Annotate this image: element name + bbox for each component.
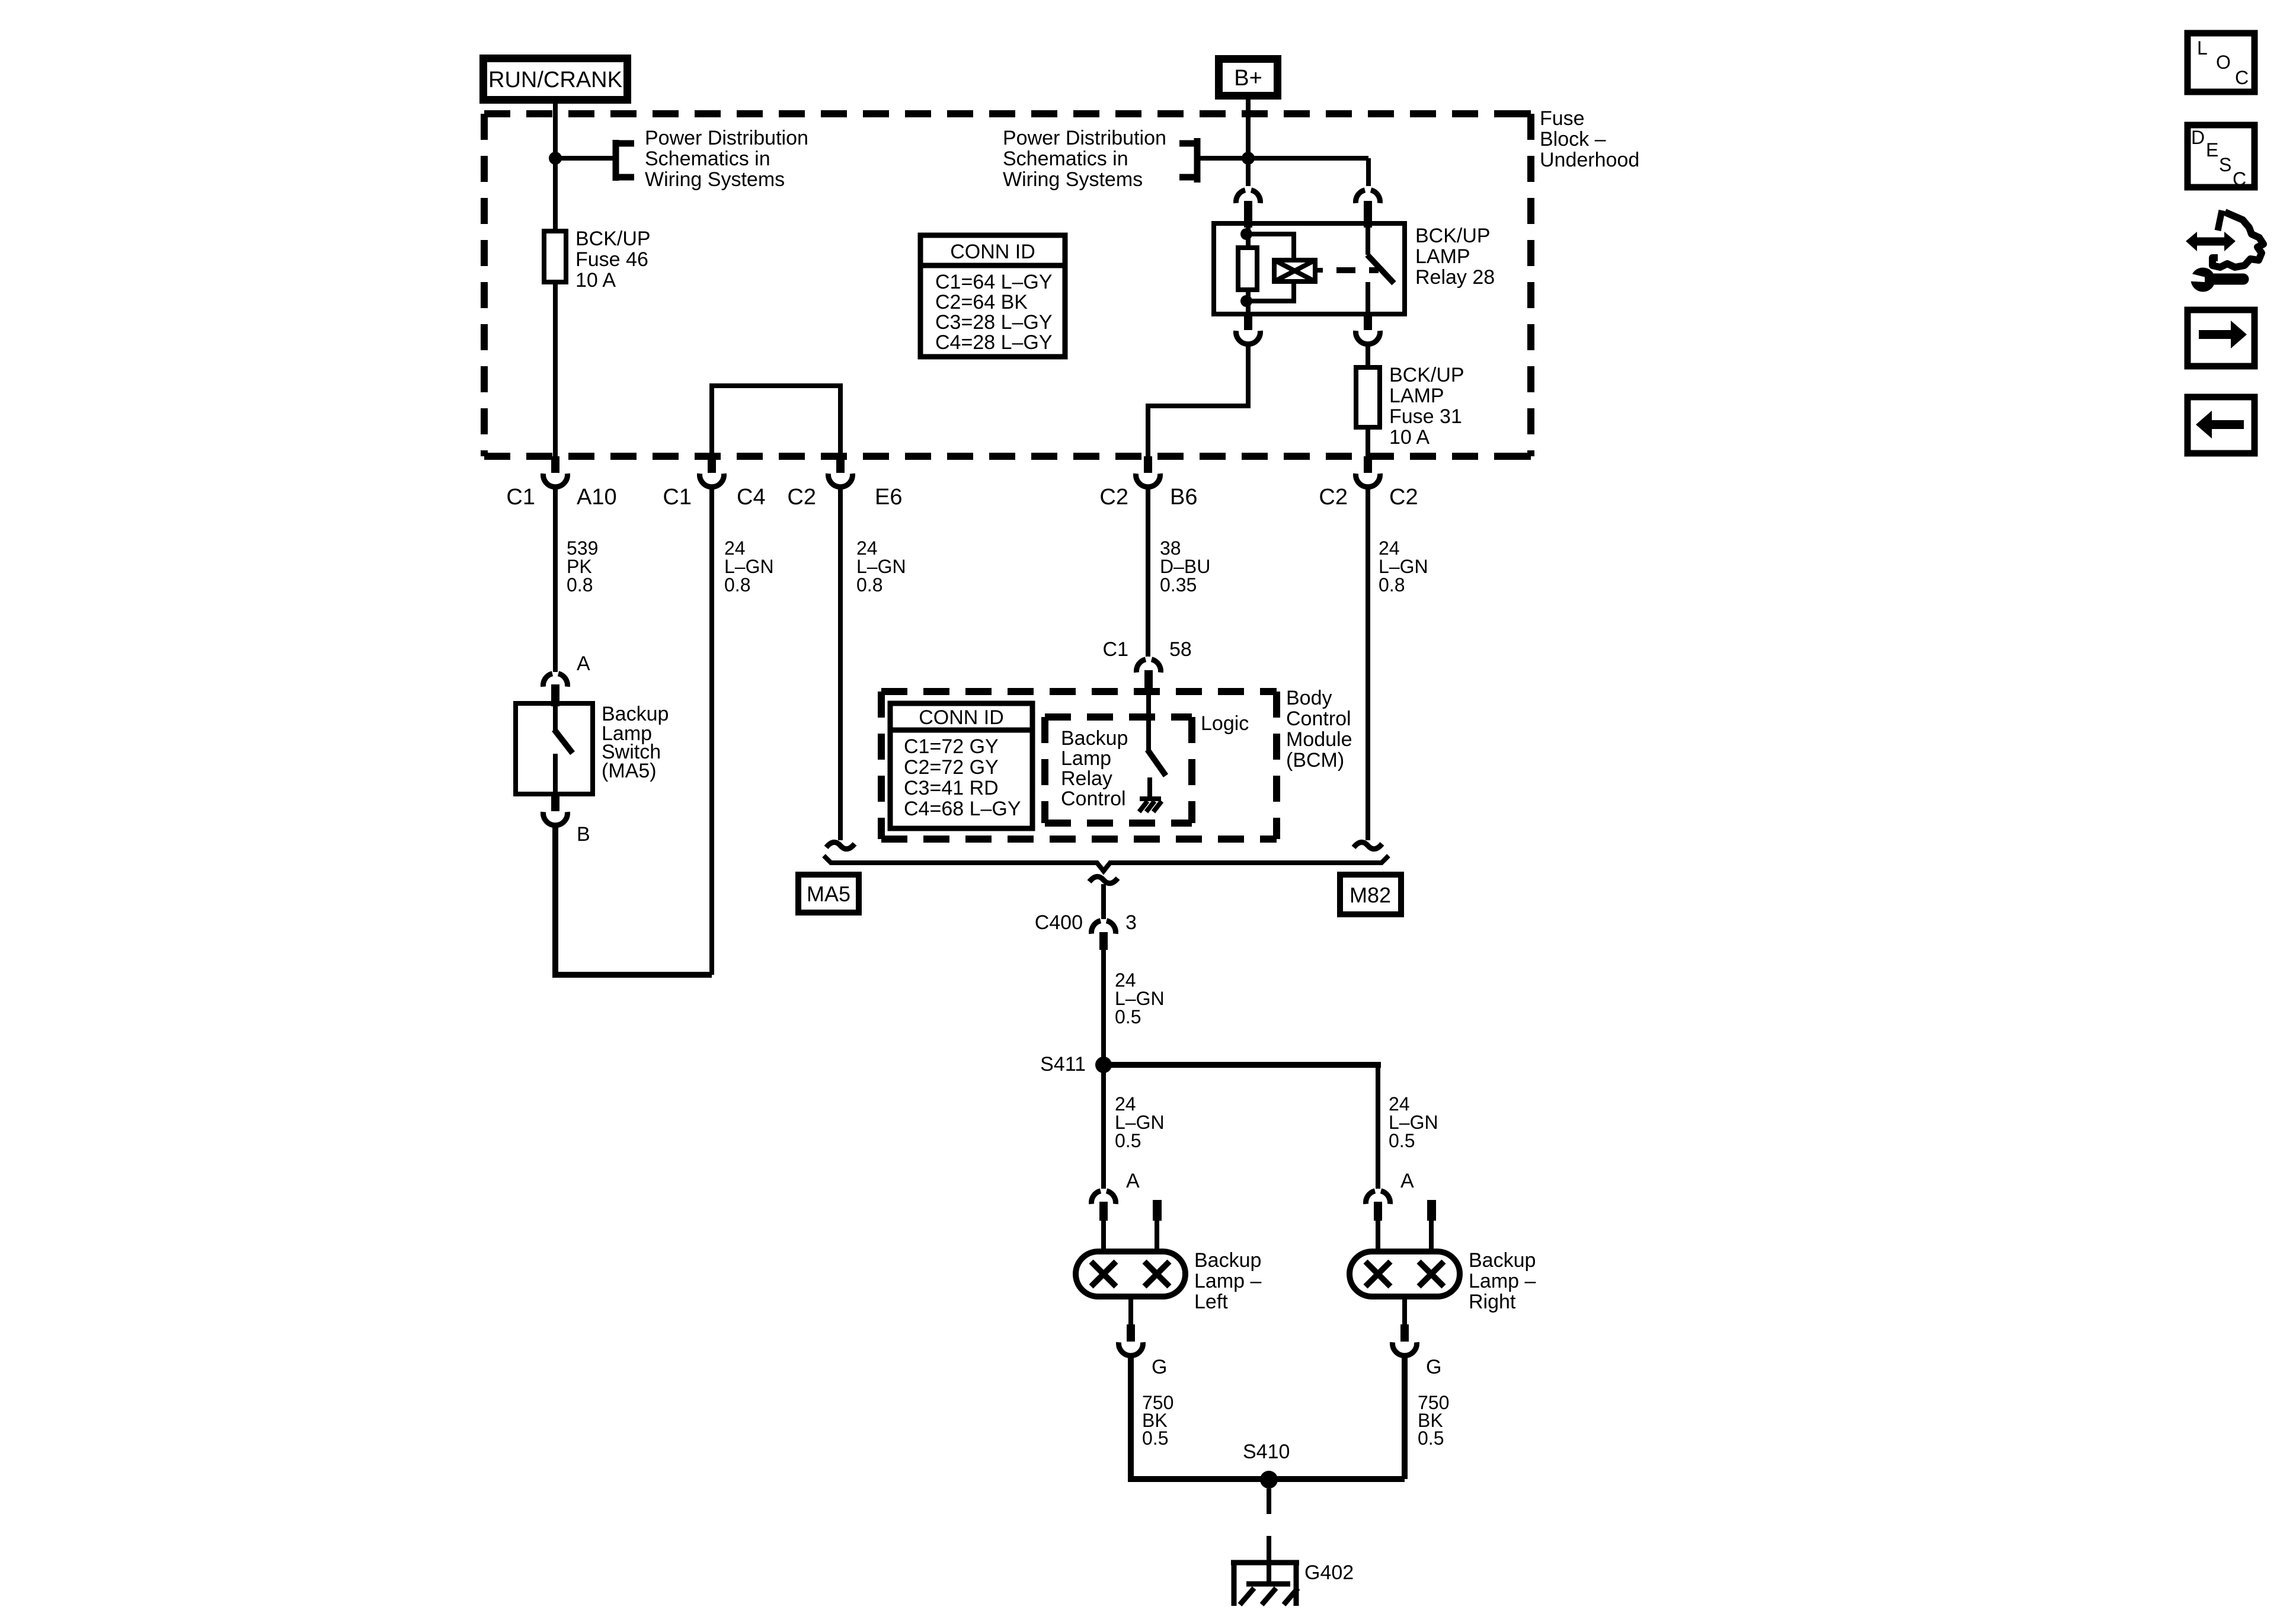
svg-text:(BCM): (BCM) <box>1286 749 1344 772</box>
wire C4 label <box>724 537 774 596</box>
wire 24 L-GN 0.8 (E6) <box>838 486 843 840</box>
wire M82 label <box>1379 537 1428 596</box>
connector C1/A10 (stub + cup) <box>543 456 567 487</box>
svg-text:BCK/UP: BCK/UP <box>575 228 651 250</box>
connector A into backup lamp switch (dome + stub) <box>543 674 567 706</box>
wire label right 750 BK 0.5 <box>1418 1392 1449 1449</box>
svg-text:Backup: Backup <box>1469 1249 1536 1272</box>
BCM driver switch lower line <box>1147 777 1152 799</box>
svg-text:C2=72 GY: C2=72 GY <box>904 756 999 779</box>
backup lamp switch MA5 box <box>516 703 593 794</box>
svg-text:Underhood: Underhood <box>1540 149 1639 171</box>
fuse block label <box>1540 107 1639 171</box>
svg-text:0.8: 0.8 <box>856 574 882 596</box>
svg-text:0.5: 0.5 <box>1389 1130 1415 1151</box>
wire S411 to left lamp A <box>1101 1065 1106 1189</box>
wire 539 PK 0.8 label <box>567 537 598 596</box>
wire switch output down and over to C4 wire <box>555 824 712 975</box>
wire down to relay switch pin <box>1366 158 1371 186</box>
svg-text:Relay 28: Relay 28 <box>1415 266 1495 289</box>
svg-text:Body: Body <box>1286 687 1332 709</box>
wrench head <box>2191 268 2215 292</box>
svg-text:C4: C4 <box>737 485 766 510</box>
svg-text:M82: M82 <box>1350 883 1391 907</box>
fuse block dashed box <box>484 114 1531 456</box>
wire 38 D-BU 0.35 (B6) <box>1146 486 1150 657</box>
svg-text:S410: S410 <box>1243 1441 1290 1463</box>
svg-text:0.8: 0.8 <box>724 574 750 596</box>
svg-text:C2: C2 <box>1319 485 1348 510</box>
connector C1/C4 (stub + cup) <box>700 456 724 487</box>
node junction on B+ wire <box>1242 152 1255 165</box>
svg-text:C1=64 L–GY: C1=64 L–GY <box>935 271 1053 293</box>
connector G right (stub + cup) <box>1393 1324 1417 1356</box>
CONN ID table fuse block <box>920 235 1065 357</box>
car hood stick <box>2218 210 2222 231</box>
svg-text:Lamp –: Lamp – <box>1469 1270 1536 1292</box>
svg-text:E: E <box>2206 139 2218 161</box>
switch MA5 upper contact <box>553 706 558 730</box>
switch MA5 blade <box>554 729 573 753</box>
switch MA5 lower contact <box>553 754 558 794</box>
car double arrow <box>2186 232 2236 251</box>
connector C1/58 into BCM (dome + stub) <box>1136 660 1160 695</box>
connector C2/C2 labels <box>1319 485 1418 510</box>
BCM driver switch blade <box>1147 750 1166 776</box>
MA5 harness box <box>798 875 859 913</box>
splice S411 <box>1095 1057 1112 1073</box>
connector C1/C4 labels <box>663 485 765 510</box>
wire break squiggle above C400 <box>1089 876 1118 883</box>
left power distribution note text <box>645 127 808 191</box>
wire label left 750 BK 0.5 <box>1142 1392 1173 1449</box>
relay coil-side wire inside box <box>1246 226 1251 314</box>
svg-text:CONN ID: CONN ID <box>919 706 1004 729</box>
power box B+ <box>1219 59 1278 96</box>
connector B below switch (stub + cup) <box>543 794 568 825</box>
dead terminal stub left lamp <box>1153 1200 1162 1221</box>
connector A left lamp (dome + stub) <box>1091 1191 1115 1221</box>
relay K28 box <box>1214 223 1405 314</box>
wire S410 to ground upper segment <box>1267 1489 1271 1514</box>
power box RUN/CRANK <box>484 59 628 100</box>
dead terminal stub right lamp <box>1427 1200 1436 1221</box>
svg-text:0.5: 0.5 <box>1115 1006 1141 1028</box>
right backup lamp body <box>1350 1251 1460 1297</box>
svg-text:58: 58 <box>1169 638 1192 661</box>
fuse F46 BCK/UP Fuse 46 10A <box>544 231 566 282</box>
svg-text:Schematics in: Schematics in <box>1003 148 1128 170</box>
connector C2/E6 labels <box>787 485 902 510</box>
wire left lamp ground run <box>1131 1355 1405 1479</box>
svg-text:G402: G402 <box>1304 1561 1354 1584</box>
svg-text:BCK/UP: BCK/UP <box>1389 364 1464 386</box>
CONN ID table BCM <box>890 703 1032 828</box>
BCM label Body Control Module <box>1286 687 1352 772</box>
svg-text:3: 3 <box>1125 911 1137 934</box>
wire second terminal right lamp <box>1429 1221 1434 1251</box>
connector C1/58 labels <box>1103 638 1192 661</box>
left power distribution note bracket <box>616 140 634 181</box>
wire S410 to ground lower segment <box>1267 1536 1271 1582</box>
svg-text:Fuse: Fuse <box>1540 107 1585 130</box>
svg-text:(MA5): (MA5) <box>602 760 657 782</box>
connector C1/A10 labels <box>506 485 616 510</box>
svg-text:C3=28 L–GY: C3=28 L–GY <box>935 311 1053 334</box>
svg-text:B: B <box>577 823 590 846</box>
connector A right lamp (dome + stub) <box>1366 1191 1390 1221</box>
right power distribution note bracket <box>1179 138 1197 183</box>
fuse block corner dashes <box>1518 114 1531 456</box>
svg-text:C1: C1 <box>506 485 535 510</box>
svg-text:Logic: Logic <box>1201 712 1249 735</box>
svg-text:Module: Module <box>1286 728 1352 751</box>
wire 24 L-GN 0.8 (C4) <box>709 486 714 975</box>
svg-text:Block –: Block – <box>1540 128 1606 151</box>
wire right lamp to G connector <box>1402 1297 1407 1326</box>
relay internal node bottom <box>1240 295 1252 307</box>
wires into right lamp <box>1376 1221 1380 1251</box>
wire label left 24 L-GN 0.5 <box>1115 1093 1165 1151</box>
right lamp X filament 2 <box>1419 1262 1444 1286</box>
wire E6 label <box>856 537 906 596</box>
icon arrow left box <box>2188 397 2255 453</box>
svg-text:0.8: 0.8 <box>567 574 593 596</box>
wire branch to left note bracket <box>555 156 616 161</box>
svg-text:C1=72 GY: C1=72 GY <box>904 735 999 758</box>
svg-text:B6: B6 <box>1170 485 1197 510</box>
mechanical link dashes <box>1336 267 1379 273</box>
svg-text:Lamp: Lamp <box>1061 747 1111 770</box>
svg-text:0.5: 0.5 <box>1115 1130 1141 1151</box>
svg-text:S: S <box>2219 154 2231 175</box>
svg-text:0.8: 0.8 <box>1379 574 1405 596</box>
svg-text:C3=41 RD: C3=41 RD <box>904 777 999 799</box>
relay coil pin 85 connector below box (stub + cup) <box>1236 314 1261 344</box>
svg-text:Control: Control <box>1061 788 1126 810</box>
logic dashed box <box>1045 717 1192 823</box>
relay internal node top <box>1240 228 1252 240</box>
connector C2/C2 (stub + cup) <box>1356 456 1380 487</box>
svg-text:Backup: Backup <box>1061 727 1128 750</box>
svg-text:Wiring Systems: Wiring Systems <box>645 168 785 191</box>
wire 539 PK 0.8 <box>553 486 558 672</box>
svg-text:RUN/CRANK: RUN/CRANK <box>488 68 622 92</box>
icon arrow right box <box>2188 310 2255 366</box>
wire branch bracket to junction to relay switch side <box>1200 156 1368 161</box>
svg-text:G: G <box>1152 1356 1167 1378</box>
left lamp X filament 1 <box>1091 1262 1116 1286</box>
svg-text:A: A <box>1126 1170 1140 1192</box>
BCM driver switch upper line <box>1146 693 1151 750</box>
ground symbol inside BCM <box>1139 799 1162 812</box>
wires into left lamp <box>1101 1221 1106 1251</box>
node junction on RUN/CRANK wire <box>549 152 562 165</box>
wire label right 24 L-GN 0.5 <box>1389 1093 1438 1151</box>
relay switch fixed contact <box>1366 223 1370 255</box>
connector C400/3 (dome + stub) <box>1091 921 1115 950</box>
relay K28 label <box>1415 225 1495 289</box>
svg-text:Relay: Relay <box>1061 767 1112 790</box>
svg-text:CONN ID: CONN ID <box>950 241 1035 263</box>
svg-text:Backup: Backup <box>1194 1249 1261 1272</box>
connector C2/B6 labels <box>1099 485 1197 510</box>
switch MA5 label <box>602 703 669 782</box>
wire relay coil output to BCM column <box>1148 343 1248 456</box>
svg-text:MA5: MA5 <box>807 882 850 906</box>
svg-text:C4=68 L–GY: C4=68 L–GY <box>904 798 1021 820</box>
svg-text:10 A: 10 A <box>1389 426 1430 449</box>
wire S411 branch to right lamp <box>1104 1065 1378 1068</box>
wire second terminal left lamp <box>1155 1221 1159 1251</box>
wire left lamp to G connector <box>1128 1297 1133 1326</box>
relay switch lower terminal <box>1366 282 1370 314</box>
BCM dashed box <box>881 692 1277 839</box>
svg-text:Power Distribution: Power Distribution <box>645 127 808 149</box>
svg-text:L: L <box>2197 37 2208 59</box>
svg-text:C2: C2 <box>1389 485 1418 510</box>
connector into relay switch pin 87 (dome + stub) <box>1355 190 1380 228</box>
svg-text:G: G <box>1426 1356 1441 1378</box>
fuse F31 BCK/UP LAMP Fuse 31 10A <box>1356 367 1380 427</box>
wire right lamp ground run <box>1402 1355 1408 1479</box>
wire coil stub to link <box>1315 268 1323 273</box>
wire B6 label <box>1160 537 1210 596</box>
wire 24 L-GN 0.8 (M82) <box>1366 486 1370 840</box>
relay coil box with X <box>1274 260 1315 281</box>
car body outline <box>2212 212 2263 267</box>
fuse F46 label <box>575 228 651 292</box>
fuse F31 label <box>1389 364 1464 449</box>
svg-text:Lamp –: Lamp – <box>1194 1270 1261 1292</box>
svg-text:B+: B+ <box>1234 66 1262 91</box>
svg-text:C400: C400 <box>1035 911 1083 934</box>
right power distribution note text <box>1003 127 1166 191</box>
svg-text:Wiring Systems: Wiring Systems <box>1003 168 1143 191</box>
wire fuse 31 to bottom edge <box>1366 427 1370 456</box>
svg-text:C2: C2 <box>787 485 816 510</box>
wire B+ feed <box>1246 95 1251 186</box>
svg-text:0.5: 0.5 <box>1418 1427 1444 1449</box>
M82 harness box <box>1340 875 1401 914</box>
svg-text:BCK/UP: BCK/UP <box>1415 225 1491 247</box>
wrench handle <box>2215 274 2243 285</box>
svg-text:Schematics in: Schematics in <box>645 148 770 170</box>
svg-text:S411: S411 <box>1040 1053 1086 1076</box>
relay switch output connector below box (stub + cup) <box>1356 314 1380 344</box>
wire RUN/CRANK feed <box>553 100 558 456</box>
svg-text:Fuse 46: Fuse 46 <box>575 248 648 271</box>
icon car diagnostic <box>2186 210 2263 292</box>
left backup lamp body <box>1076 1251 1185 1297</box>
ground G402 symbol <box>1231 1563 1299 1606</box>
connector C400/3 labels <box>1035 911 1137 934</box>
connector into relay coil pin 86 (dome + stub) <box>1236 190 1260 228</box>
svg-text:D: D <box>2191 127 2205 148</box>
connector C2/B6 (stub + cup) <box>1136 456 1160 487</box>
svg-text:0.5: 0.5 <box>1142 1427 1168 1449</box>
svg-text:O: O <box>2216 52 2231 73</box>
relay switch blade <box>1367 255 1394 283</box>
svg-text:LAMP: LAMP <box>1415 245 1470 268</box>
wrench jaw slot <box>2188 273 2205 283</box>
svg-text:C4=28 L–GY: C4=28 L–GY <box>935 331 1053 354</box>
right lamp X filament 1 <box>1366 1262 1390 1286</box>
svg-text:LAMP: LAMP <box>1389 385 1444 407</box>
wire coil loop <box>1246 234 1294 301</box>
svg-text:C1: C1 <box>663 485 692 510</box>
wire C400 to S411 <box>1101 950 1106 1065</box>
svg-text:Control: Control <box>1286 708 1351 730</box>
harness brace <box>824 856 1389 871</box>
svg-text:A10: A10 <box>577 485 617 510</box>
svg-text:C1: C1 <box>1103 638 1128 661</box>
svg-text:A: A <box>1400 1170 1414 1192</box>
svg-text:0.35: 0.35 <box>1160 574 1197 596</box>
resistor inside relay <box>1238 248 1257 290</box>
left lamp label <box>1194 1249 1261 1313</box>
icon LOC box <box>2188 33 2255 92</box>
svg-text:Right: Right <box>1469 1291 1516 1313</box>
wire right branch down to A <box>1376 1065 1380 1189</box>
wire break squiggle E6 <box>826 842 855 849</box>
splice S410 <box>1260 1471 1278 1489</box>
svg-text:C2=64 BK: C2=64 BK <box>935 291 1028 313</box>
wire relay switch output down to fuse 31 <box>1366 343 1370 367</box>
connector G left (stub + cup) <box>1119 1324 1143 1356</box>
bridge wire C4 to E6 above edge <box>712 386 840 456</box>
wire into C400 <box>1101 884 1106 919</box>
svg-text:10 A: 10 A <box>575 269 616 292</box>
svg-text:C2: C2 <box>1099 485 1128 510</box>
wire label 24 L-GN 0.5 upper <box>1115 969 1165 1028</box>
right lamp label <box>1469 1249 1536 1313</box>
svg-text:Left: Left <box>1194 1291 1228 1313</box>
backup lamp relay control label <box>1061 727 1128 810</box>
left lamp X filament 2 <box>1144 1262 1169 1286</box>
svg-text:Power Distribution: Power Distribution <box>1003 127 1166 149</box>
connector C2/E6 (stub + cup) <box>829 456 853 487</box>
svg-text:C: C <box>2233 168 2246 190</box>
svg-text:C: C <box>2235 67 2249 88</box>
svg-text:Fuse 31: Fuse 31 <box>1389 405 1462 428</box>
svg-text:E6: E6 <box>875 485 902 510</box>
icon DESC box <box>2188 125 2255 190</box>
wire break squiggle M82 <box>1354 842 1382 849</box>
svg-text:A: A <box>577 652 590 675</box>
